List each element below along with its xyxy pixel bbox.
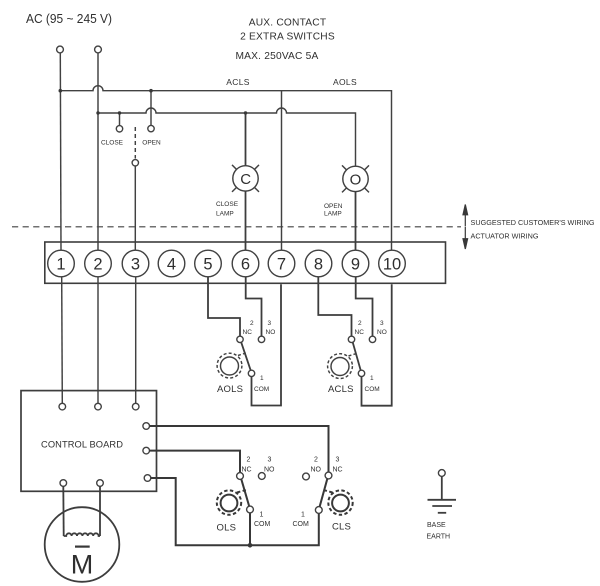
control board right terminal 1 bbox=[143, 423, 150, 430]
terminal 3 bbox=[122, 250, 149, 277]
wire terminal 3 to control board bbox=[135, 277, 137, 404]
svg-text:NO: NO bbox=[266, 329, 276, 336]
svg-text:NO: NO bbox=[311, 467, 322, 474]
control board motor terminal B bbox=[97, 480, 104, 487]
node OPEN wire junction bbox=[149, 89, 153, 93]
terminal 6 bbox=[232, 250, 259, 277]
node CLOSE stub junction bbox=[118, 111, 121, 114]
blade OLS bbox=[241, 479, 249, 506]
contact OPEN bbox=[148, 125, 154, 131]
contact OLS NC (2) bbox=[237, 473, 244, 480]
lamp O (open lamp) bbox=[342, 165, 369, 192]
control board right terminal 2 bbox=[143, 447, 150, 454]
cam CLS bbox=[324, 490, 353, 515]
svg-text:AC (95 ~ 245 V): AC (95 ~ 245 V) bbox=[26, 11, 112, 26]
svg-text:COM: COM bbox=[254, 521, 271, 528]
svg-text:BASE: BASE bbox=[427, 522, 446, 529]
svg-text:NC: NC bbox=[242, 467, 252, 474]
svg-text:AUX. CONTACT: AUX. CONTACT bbox=[249, 18, 327, 29]
svg-text:NC: NC bbox=[333, 467, 343, 474]
contact AOLS NO (3) bbox=[258, 336, 264, 342]
cam AOLS bbox=[217, 353, 246, 378]
contact ACLS NC (2) bbox=[348, 336, 354, 342]
contact ACLS NO (3) bbox=[369, 336, 375, 342]
svg-text:3: 3 bbox=[268, 457, 272, 464]
svg-text:10: 10 bbox=[383, 256, 401, 274]
terminal 5 bbox=[195, 250, 222, 277]
wire motor B bbox=[99, 486, 101, 536]
svg-text:ACTUATOR WIRING: ACTUATOR WIRING bbox=[471, 234, 539, 241]
contact OLS NO (3) bbox=[258, 473, 265, 480]
svg-text:EARTH: EARTH bbox=[427, 534, 451, 541]
svg-text:AOLS: AOLS bbox=[217, 384, 243, 395]
contact CLOSE bbox=[116, 126, 122, 132]
contact CLS NO (2) bbox=[303, 473, 310, 480]
svg-text:O: O bbox=[350, 171, 362, 188]
selector switch mechanical dashed link bbox=[134, 127, 136, 159]
svg-text:3: 3 bbox=[380, 320, 384, 327]
svg-text:2: 2 bbox=[358, 320, 362, 327]
node C lamp junction bbox=[244, 111, 247, 114]
svg-text:MAX. 250VAC 5A: MAX. 250VAC 5A bbox=[235, 51, 318, 62]
control board terminal (from T3) bbox=[132, 403, 139, 410]
cam OLS bbox=[217, 490, 246, 515]
svg-text:OPEN: OPEN bbox=[324, 203, 343, 210]
svg-text:9: 9 bbox=[351, 256, 360, 274]
svg-text:LAMP: LAMP bbox=[216, 211, 234, 218]
svg-text:OLS: OLS bbox=[217, 523, 237, 534]
svg-text:5: 5 bbox=[203, 256, 212, 274]
wire terminal 1 to control board bbox=[61, 277, 64, 404]
wire AOLS COM to terminal 7 bbox=[252, 284, 282, 405]
control board terminal (from T2) bbox=[95, 403, 102, 410]
wire CLOSE contact stub bbox=[119, 113, 121, 126]
separator dashed line customer/actuator bbox=[12, 226, 461, 228]
svg-text:AOLS: AOLS bbox=[333, 77, 357, 87]
contact CLS COM (1) bbox=[315, 507, 322, 514]
lamp C (close lamp) bbox=[232, 165, 259, 192]
control board terminal (from T1) bbox=[59, 403, 66, 410]
svg-text:CLS: CLS bbox=[332, 522, 351, 533]
svg-text:2: 2 bbox=[247, 457, 251, 464]
svg-text:CLOSE: CLOSE bbox=[101, 140, 124, 147]
contact AOLS NC (2) bbox=[237, 336, 243, 342]
svg-text:7: 7 bbox=[277, 256, 286, 274]
svg-text:C: C bbox=[240, 171, 251, 188]
wire L bus (first horizontal line) with hop over N wire bbox=[60, 86, 392, 251]
svg-text:1: 1 bbox=[260, 512, 264, 519]
svg-text:COM: COM bbox=[293, 521, 310, 528]
svg-text:3: 3 bbox=[131, 256, 140, 274]
wire terminal 5 to AOLS NC bbox=[208, 277, 240, 336]
control board box bbox=[21, 391, 157, 492]
svg-text:M: M bbox=[71, 550, 94, 580]
cam ACLS bbox=[328, 353, 357, 378]
wire terminal 8 to ACLS NC bbox=[318, 277, 351, 336]
terminal 2 bbox=[85, 250, 112, 277]
node L-bus left junction bbox=[59, 89, 63, 93]
control board right terminal 3 bbox=[144, 475, 151, 482]
wire terminal 9 to ACLS NO bbox=[356, 277, 373, 336]
svg-text:2: 2 bbox=[314, 457, 318, 464]
terminal AC-N bbox=[95, 46, 102, 53]
wire terminal 6 to AOLS NO bbox=[246, 277, 262, 336]
wire ACLS COM to terminal 10 bbox=[362, 284, 392, 406]
svg-text:1: 1 bbox=[56, 256, 65, 274]
contact ACLS COM (1) bbox=[358, 370, 364, 376]
wire terminal 2 to control board bbox=[97, 277, 99, 404]
svg-text:LAMP: LAMP bbox=[324, 211, 342, 218]
ground bbox=[428, 500, 457, 513]
wire AC-L to terminal 1 bbox=[59, 53, 62, 250]
selector switch pole bbox=[132, 160, 138, 166]
wire CB to OLS NC bbox=[150, 451, 241, 473]
svg-text:NC: NC bbox=[355, 329, 365, 336]
blade CLS bbox=[320, 479, 328, 507]
svg-text:SUGGESTED CUSTOMER'S WIRING: SUGGESTED CUSTOMER'S WIRING bbox=[471, 220, 595, 227]
wire earth bbox=[441, 477, 443, 500]
wire O lamp to terminal 9 bbox=[355, 192, 357, 251]
svg-text:4: 4 bbox=[167, 256, 176, 274]
svg-text:COM: COM bbox=[254, 386, 269, 393]
node N-bus left junction bbox=[96, 111, 99, 114]
wire pole to terminal 3 bbox=[134, 166, 136, 250]
terminal 7 bbox=[268, 250, 295, 277]
wire AC-N to terminal 2 bbox=[97, 53, 99, 250]
svg-text:NO: NO bbox=[377, 329, 387, 336]
wire C lamp to terminal 6 bbox=[245, 191, 247, 250]
terminal 4 bbox=[158, 250, 185, 277]
terminal base earth bbox=[438, 470, 445, 477]
motor M1 bbox=[45, 507, 120, 582]
svg-text:6: 6 bbox=[241, 256, 250, 274]
svg-text:NC: NC bbox=[243, 329, 253, 336]
blade AOLS bbox=[241, 342, 251, 370]
wire N bus (second horizontal line) with hops over OPEN wire and T7 wire bbox=[98, 108, 356, 167]
svg-text:1: 1 bbox=[370, 375, 374, 382]
terminal AC-L bbox=[57, 46, 64, 53]
blade ACLS bbox=[353, 342, 361, 370]
svg-text:8: 8 bbox=[314, 256, 323, 274]
svg-text:3: 3 bbox=[336, 457, 340, 464]
wire motor A bbox=[62, 486, 64, 536]
wire C lamp branch from N bus bbox=[245, 113, 247, 166]
terminal 8 bbox=[305, 250, 332, 277]
contact CLS NC (3) bbox=[325, 472, 332, 479]
wire L bus to terminal 7 bbox=[281, 91, 283, 251]
svg-text:COM: COM bbox=[365, 386, 380, 393]
control board motor terminal A bbox=[60, 480, 67, 487]
wire CB to CLS NC bbox=[150, 426, 329, 472]
wire OLS COM drop bbox=[249, 513, 251, 546]
terminal 9 bbox=[342, 250, 369, 277]
svg-text:3: 3 bbox=[268, 320, 272, 327]
wire OPEN contact from L bus bbox=[150, 91, 152, 126]
svg-text:2: 2 bbox=[250, 320, 254, 327]
terminal 10 bbox=[379, 250, 406, 277]
svg-text:2 EXTRA SWITCHS: 2 EXTRA SWITCHS bbox=[240, 32, 335, 43]
svg-text:1: 1 bbox=[301, 512, 305, 519]
node COM junction bbox=[248, 543, 253, 548]
svg-text:NO: NO bbox=[264, 467, 275, 474]
svg-text:CLOSE: CLOSE bbox=[216, 201, 239, 208]
svg-text:2: 2 bbox=[93, 256, 102, 274]
svg-text:ACLS: ACLS bbox=[328, 384, 354, 395]
contact OLS COM (1) bbox=[247, 506, 254, 513]
svg-text:OPEN: OPEN bbox=[142, 140, 161, 147]
terminal strip box bbox=[45, 242, 446, 283]
svg-text:CONTROL BOARD: CONTROL BOARD bbox=[41, 440, 123, 450]
arrow actuator wiring (down) bbox=[463, 227, 468, 249]
terminal 1 bbox=[48, 250, 75, 277]
svg-text:1: 1 bbox=[260, 375, 264, 382]
arrow suggested customer's wiring (up) bbox=[463, 205, 468, 227]
wire CB to OLS/CLS COM bbox=[151, 478, 319, 545]
svg-text:ACLS: ACLS bbox=[226, 77, 249, 87]
contact AOLS COM (1) bbox=[248, 370, 254, 376]
